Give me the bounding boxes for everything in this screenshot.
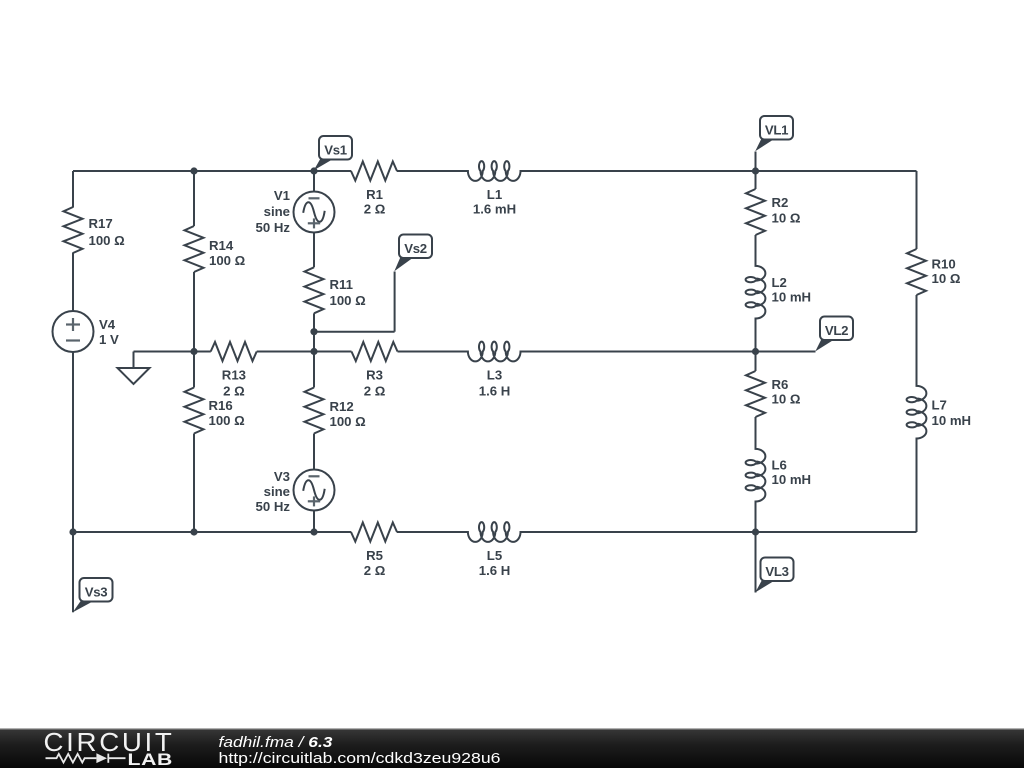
node junction middle R16 xyxy=(190,348,197,355)
node junction top VL1 xyxy=(752,167,759,174)
svg-text:R132 Ω: R132 Ω xyxy=(222,368,246,399)
resistor R16 xyxy=(185,388,204,434)
svg-text:VL1: VL1 xyxy=(765,122,788,137)
resistor R6 xyxy=(746,371,765,417)
flag Vs1 xyxy=(314,136,352,170)
wire R11 to middle rail through node xyxy=(313,313,315,351)
ground xyxy=(118,352,150,385)
flag Vs3 xyxy=(73,578,113,612)
voltage source V3 xyxy=(294,470,335,511)
node junction bottom Vs3 xyxy=(69,528,76,535)
wire middle rail between R3 and L3 xyxy=(398,351,468,353)
inductor L2 xyxy=(746,265,766,320)
wire top rail to R2 xyxy=(755,171,757,189)
resistor R5 xyxy=(351,523,397,542)
wire top rail right segment xyxy=(522,170,917,172)
resistor R2 xyxy=(746,189,765,235)
wire VL1 stub xyxy=(755,152,757,172)
resistor R17 xyxy=(64,207,83,253)
voltage source V4 xyxy=(53,311,94,352)
resistor R10 xyxy=(907,249,926,295)
wire bottom rail right segment xyxy=(522,531,917,533)
wire top rail to R10 xyxy=(916,171,918,249)
node junction top Vs1 xyxy=(310,167,317,174)
svg-text:R52 Ω: R52 Ω xyxy=(364,548,386,578)
wire top rail to V1 xyxy=(313,171,315,192)
resistor R13 xyxy=(211,342,257,361)
wire middle rail right segment to VL2 xyxy=(522,351,816,353)
inductor L3 xyxy=(467,342,522,362)
flag VL3 xyxy=(755,558,793,593)
resistor R3 xyxy=(352,342,398,361)
flag Vs2 xyxy=(394,235,432,272)
voltage source V1 xyxy=(294,192,335,233)
resistor R11 xyxy=(305,267,324,313)
svg-text:R12 Ω: R12 Ω xyxy=(364,187,386,217)
wire R2 to L2 xyxy=(755,235,757,266)
wire V3 to bottom rail xyxy=(313,511,315,533)
node junction bottom R16 xyxy=(190,528,197,535)
wire L2 to middle rail xyxy=(755,319,757,352)
wire R12 to V3 xyxy=(313,434,315,470)
inductor L5 xyxy=(467,522,522,542)
wire top rail left segment xyxy=(73,170,351,172)
node junction top R14 xyxy=(190,167,197,174)
wire R14 to middle rail xyxy=(193,272,195,352)
wire V4 to bottom rail xyxy=(72,352,74,532)
wire top rail to R14 xyxy=(193,171,195,226)
wire R6 to L6 xyxy=(755,417,757,449)
wire L6 to bottom rail xyxy=(755,502,757,532)
svg-text:Vs1: Vs1 xyxy=(324,142,347,157)
CircuitLab logo resistor-diode glyph xyxy=(46,754,126,763)
node junction middle R12 xyxy=(310,348,317,355)
svg-text:Vs3: Vs3 xyxy=(85,584,108,599)
svg-text:R32 Ω: R32 Ω xyxy=(364,368,386,399)
svg-text:LAB: LAB xyxy=(128,751,174,768)
wire bottom rail left segment xyxy=(73,531,351,533)
wire middle rail to R16 xyxy=(193,352,195,388)
wire middle rail from ground to R13 xyxy=(134,351,211,353)
svg-text:fadhil.fma / 6.3: fadhil.fma / 6.3 xyxy=(219,735,333,751)
wire middle rail between R13 and R3 xyxy=(257,351,352,353)
wire left branch top to R17 xyxy=(72,171,74,208)
resistor R12 xyxy=(305,388,324,434)
wire R16 to bottom rail xyxy=(193,434,195,533)
node junction bottom VL3 xyxy=(752,528,759,535)
flag VL1 xyxy=(755,116,793,151)
wire middle rail to R12 xyxy=(313,352,315,388)
resistor R14 xyxy=(185,226,204,272)
svg-text:http://circuitlab.com/cdkd3zeu: http://circuitlab.com/cdkd3zeu928u6 xyxy=(219,751,501,767)
node junction Vs2 tap xyxy=(310,328,317,335)
wire L7 to bottom rail xyxy=(916,439,918,532)
inductor L6 xyxy=(746,448,766,503)
wire node to Vs2 riser xyxy=(314,331,395,333)
wire top rail between R1 and L1 xyxy=(397,170,467,172)
wire bottom rail stub to VL3 xyxy=(755,532,757,593)
svg-text:VL3: VL3 xyxy=(765,564,788,579)
wire R10 to L7 xyxy=(916,295,918,386)
node junction middle R6 xyxy=(752,348,759,355)
wire R17 to V4 xyxy=(72,253,74,312)
wire V1 to R11 xyxy=(313,233,315,268)
inductor L1 xyxy=(467,161,522,181)
node junction bottom V3 xyxy=(310,528,317,535)
svg-text:Vs2: Vs2 xyxy=(404,241,427,256)
diode triangle xyxy=(96,753,107,763)
wire middle rail to R6 xyxy=(755,352,757,372)
wire bottom rail between R5 and L5 xyxy=(397,531,467,533)
flag VL2 xyxy=(815,317,853,352)
wire Vs2 riser vertical xyxy=(394,272,396,332)
inductor L7 xyxy=(907,385,927,440)
svg-text:VL2: VL2 xyxy=(825,323,848,338)
resistor R1 xyxy=(351,162,397,181)
wire bottom-left stub to Vs3 flag xyxy=(72,532,74,612)
